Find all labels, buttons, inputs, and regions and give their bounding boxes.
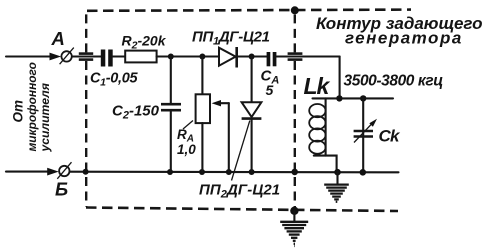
- junction rail divider: [291, 169, 298, 176]
- junction divider/bottom edge: [290, 207, 298, 215]
- shield box left dashed edge: [85, 12, 87, 52]
- resistor R2: [125, 51, 156, 63]
- wire corner down to tank: [339, 57, 341, 99]
- junction rail C2: [167, 169, 173, 175]
- inductor Lk axis: [325, 98, 327, 155]
- capacitor CA: [267, 52, 271, 66]
- potentiometer RA branch lower: [201, 123, 203, 172]
- svg-text:усилителя: усилителя: [38, 83, 52, 152]
- svg-text:3500-3800 кгц: 3500-3800 кгц: [344, 73, 444, 90]
- ground tank symbol: [324, 185, 349, 202]
- junction tank Ck: [360, 95, 366, 101]
- top input wire: [6, 55, 51, 57]
- svg-text:1,0: 1,0: [177, 142, 196, 157]
- RA leader tick: [183, 121, 193, 130]
- shield feedthrough bars divider: [288, 52, 303, 55]
- shield box bottom dashed edge: [86, 208, 398, 212]
- ground tank stub: [336, 172, 338, 184]
- svg-text:ПП1ДГ-Ц21: ПП1ДГ-Ц21: [192, 29, 270, 48]
- junction node RA tap: [199, 54, 205, 60]
- diode PP2 cathode bar: [242, 117, 262, 120]
- junction rail wiper: [226, 169, 232, 175]
- junction divider/top edge: [291, 6, 299, 14]
- svg-text:Ck: Ck: [379, 127, 401, 146]
- bottom input wire: [6, 171, 49, 173]
- wire A to C1: [72, 55, 101, 57]
- junction node PP2 tap: [249, 54, 255, 60]
- terminal B slash: [57, 162, 71, 179]
- terminal A slash: [60, 48, 74, 65]
- junction rail/left shield: [83, 169, 89, 175]
- svg-text:С1-0,05: С1-0,05: [90, 71, 139, 89]
- ground shield stub: [293, 211, 295, 221]
- shield feedthrough bars left: [79, 52, 93, 55]
- RA wiper arrow line: [216, 102, 229, 104]
- capacitor C2 branch lower: [170, 110, 172, 172]
- wire CA to corner: [276, 55, 339, 57]
- junction rail RA: [199, 169, 205, 175]
- arrowhead bottom input: [47, 168, 59, 176]
- svg-text:Lk: Lk: [304, 73, 331, 99]
- capacitor C1: [101, 50, 106, 67]
- svg-text:микрофонного: микрофонного: [25, 62, 39, 151]
- inductor bottom wire: [314, 156, 337, 172]
- diode PP2 branch upper: [251, 57, 253, 103]
- svg-text:А: А: [51, 28, 65, 49]
- diode PP2 triangle: [242, 102, 262, 117]
- potentiometer RA branch upper: [201, 57, 203, 95]
- diode PP1 cathode bar: [235, 47, 238, 68]
- bottom rail wire: [70, 171, 399, 174]
- svg-text:С2-150: С2-150: [112, 103, 160, 122]
- tank top wire: [313, 97, 394, 99]
- arrowhead top input: [50, 53, 62, 61]
- junction rail ground: [334, 169, 341, 176]
- leader line PP2 label: [232, 121, 250, 181]
- Ck plates: [354, 130, 373, 133]
- diode PP1 triangle: [219, 48, 236, 66]
- svg-text:генератора: генератора: [345, 29, 463, 48]
- inductor Lk loops: [309, 104, 325, 154]
- Ck arrow: [354, 123, 373, 143]
- capacitor Ck branch: [362, 98, 364, 172]
- RA wiper drop wire: [228, 103, 230, 172]
- svg-text:От: От: [11, 100, 26, 123]
- diode PP2 branch lower: [251, 118, 253, 172]
- svg-text:ПП2ДГ-Ц21: ПП2ДГ-Ц21: [199, 182, 280, 201]
- terminal A circle: [61, 51, 71, 61]
- C2 plates: [161, 103, 181, 106]
- shield divider dashed line: [294, 10, 296, 52]
- junction rail Ck: [360, 169, 367, 176]
- wire R2 to diode PP1: [157, 55, 219, 57]
- ground shield symbol: [280, 222, 308, 246]
- potentiometer RA body: [196, 94, 210, 123]
- wire C1 to R2: [113, 55, 125, 57]
- svg-text:Б: Б: [55, 179, 68, 200]
- svg-text:5: 5: [266, 82, 274, 98]
- capacitor C2 branch upper: [170, 57, 172, 105]
- junction rail PP2: [249, 169, 255, 175]
- wire diode PP1 to CA: [237, 55, 267, 57]
- shield box top dashed edge: [87, 10, 411, 11]
- junction node C2 tap: [168, 54, 174, 60]
- junction tank left: [336, 95, 342, 101]
- terminal B circle: [59, 166, 69, 176]
